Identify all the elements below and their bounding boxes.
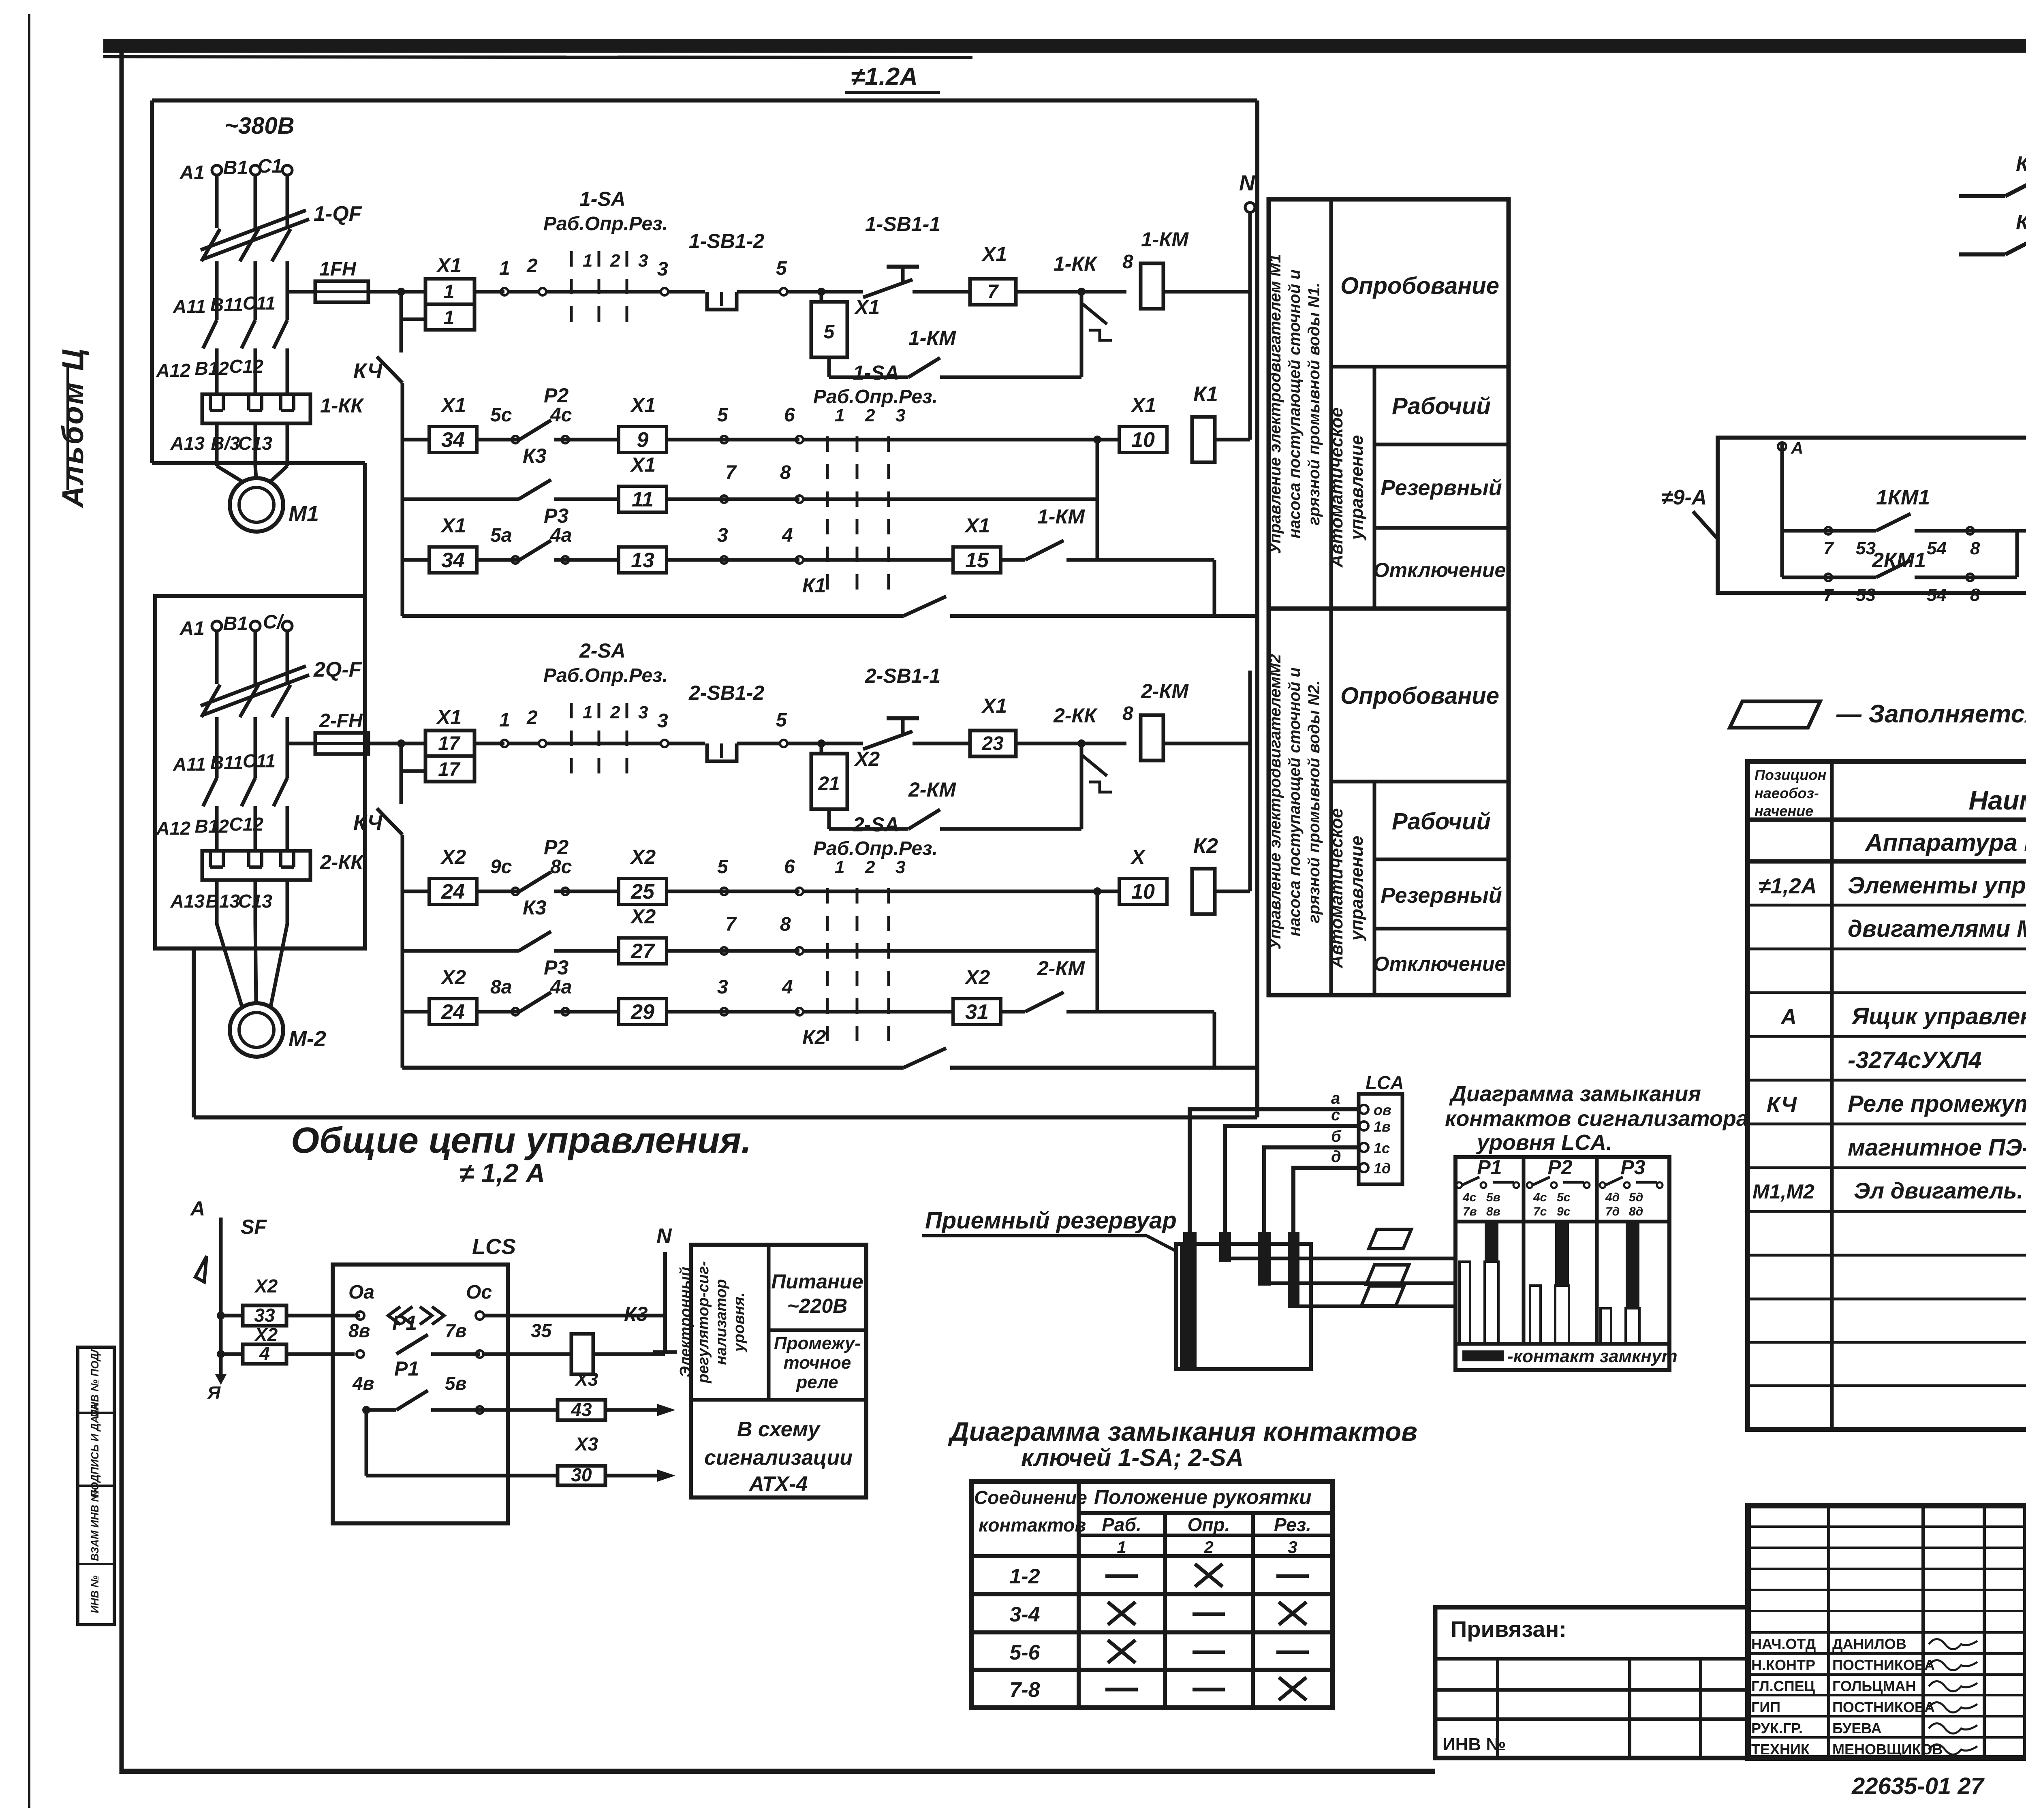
- svg-text:управление: управление: [1347, 435, 1367, 540]
- svg-text:Аппаратура по месту.: Аппаратура по месту.: [1864, 829, 2026, 856]
- svg-text:X1: X1: [440, 394, 466, 417]
- svg-text:С/: С/: [263, 611, 284, 633]
- svg-text:X2: X2: [630, 846, 656, 868]
- svg-text:д: д: [1331, 1148, 1341, 1166]
- svg-text:7-8: 7-8: [1009, 1678, 1040, 1702]
- svg-text:1: 1: [499, 258, 510, 279]
- svg-text:5: 5: [824, 321, 835, 343]
- svg-text:а: а: [1331, 1089, 1340, 1107]
- svg-text:А: А: [1791, 438, 1803, 457]
- svg-text:7: 7: [987, 281, 999, 303]
- svg-text:Х2: Х2: [254, 1324, 278, 1345]
- svg-text:2: 2: [610, 251, 620, 271]
- svg-text:грязной промывной воды N1.: грязной промывной воды N1.: [1305, 282, 1323, 525]
- svg-text:X2: X2: [854, 748, 880, 770]
- svg-text:ГЛ.СПЕЦ: ГЛ.СПЕЦ: [1751, 1678, 1815, 1694]
- svg-text:6: 6: [784, 856, 795, 878]
- svg-text:Эл двигатель. 4АХ80А2 1.5кВт: Эл двигатель. 4АХ80А2 1.5кВт: [1854, 1178, 2026, 1203]
- svg-text:ГОЛЬЦМАН: ГОЛЬЦМАН: [1832, 1678, 1916, 1694]
- svg-text:С12: С12: [229, 356, 264, 377]
- svg-text:5с: 5с: [1557, 1191, 1571, 1204]
- svg-text:А13: А13: [170, 891, 205, 912]
- svg-text:29: 29: [630, 1000, 654, 1024]
- svg-text:17: 17: [438, 733, 461, 754]
- svg-text:5а: 5а: [490, 525, 512, 546]
- svg-text:реле: реле: [796, 1372, 838, 1392]
- svg-text:9: 9: [637, 428, 649, 452]
- svg-text:К3: К3: [624, 1303, 648, 1325]
- svg-text:8д: 8д: [1629, 1205, 1643, 1218]
- svg-text:≠ 1,2 А: ≠ 1,2 А: [459, 1158, 545, 1188]
- svg-text:1-2: 1-2: [1009, 1565, 1040, 1588]
- svg-text:5: 5: [776, 709, 787, 731]
- svg-text:Управление электродвигателем М: Управление электродвигателем М1: [1266, 254, 1284, 554]
- svg-text:В13: В13: [206, 891, 240, 912]
- svg-text:43: 43: [571, 1399, 592, 1420]
- svg-text:3: 3: [638, 251, 648, 271]
- svg-text:грязной промывной воды N2.: грязной промывной воды N2.: [1305, 680, 1323, 923]
- svg-text:8: 8: [780, 462, 791, 483]
- svg-text:Наименование: Наименование: [1969, 785, 2026, 815]
- svg-text:X1: X1: [630, 453, 656, 476]
- svg-text:Приемный резервуар: Приемный резервуар: [925, 1207, 1177, 1234]
- svg-text:А12: А12: [156, 360, 191, 381]
- svg-text:4: 4: [782, 976, 793, 998]
- svg-text:27: 27: [630, 940, 655, 963]
- svg-text:8в: 8в: [1486, 1205, 1500, 1218]
- svg-text:1КМ1: 1КМ1: [1876, 486, 1930, 509]
- svg-text:1-SA: 1-SA: [853, 361, 899, 384]
- svg-text:1-КМ: 1-КМ: [1037, 505, 1085, 528]
- svg-text:Х3: Х3: [574, 1433, 598, 1455]
- svg-text:24: 24: [441, 1000, 465, 1024]
- svg-text:Р2: Р2: [1547, 1156, 1572, 1179]
- svg-text:уровня.: уровня.: [731, 1292, 748, 1352]
- svg-text:Р3: Р3: [544, 504, 568, 527]
- svg-text:2-SB1-1: 2-SB1-1: [865, 664, 940, 687]
- svg-text:31: 31: [965, 1000, 989, 1024]
- svg-text:X1: X1: [436, 254, 462, 277]
- svg-text:насоса поступающей сточной и: насоса поступающей сточной и: [1286, 667, 1304, 936]
- svg-text:Х2: Х2: [254, 1275, 278, 1297]
- svg-text:ДАНИЛОВ: ДАНИЛОВ: [1832, 1636, 1906, 1652]
- svg-text:1-КК: 1-КК: [1054, 252, 1098, 275]
- svg-text:точное: точное: [784, 1353, 851, 1373]
- svg-text:М1,М2: М1,М2: [1752, 1180, 1814, 1203]
- svg-text:К2: К2: [1193, 834, 1218, 858]
- svg-text:Отключение: Отключение: [1374, 953, 1506, 975]
- svg-text:начение: начение: [1755, 803, 1813, 819]
- svg-text:34: 34: [441, 428, 465, 452]
- svg-text:Электронный: Электронный: [677, 1267, 694, 1378]
- svg-text:30: 30: [571, 1464, 592, 1485]
- svg-text:4: 4: [259, 1343, 270, 1364]
- svg-text:Р1: Р1: [1477, 1156, 1502, 1179]
- svg-text:LCA: LCA: [1366, 1072, 1404, 1093]
- svg-text:АТХ-4: АТХ-4: [748, 1472, 808, 1496]
- svg-text:1-SA: 1-SA: [579, 188, 626, 210]
- svg-text:2КМ1: 2КМ1: [1872, 549, 1926, 572]
- svg-text:2: 2: [865, 857, 875, 877]
- svg-text:С12: С12: [229, 814, 264, 835]
- svg-text:7в: 7в: [1463, 1205, 1477, 1218]
- svg-text:11: 11: [632, 488, 654, 511]
- svg-text:2-КК: 2-КК: [1053, 704, 1098, 727]
- svg-text:1-КК: 1-КК: [320, 394, 364, 417]
- svg-text:X2: X2: [630, 905, 656, 928]
- svg-text:1-QF: 1-QF: [314, 202, 362, 226]
- svg-text:ПОДПИСЬ И ДАТА: ПОДПИСЬ И ДАТА: [89, 1403, 101, 1498]
- svg-text:5с: 5с: [490, 404, 512, 426]
- svg-text:Ос: Ос: [466, 1282, 492, 1303]
- svg-text:КЧ: КЧ: [2016, 211, 2026, 234]
- svg-text:8а: 8а: [490, 976, 512, 998]
- svg-text:Элементы управления электро-: Элементы управления электро-: [1848, 872, 2026, 899]
- svg-text:Промежу-: Промежу-: [774, 1333, 861, 1353]
- svg-text:Р2: Р2: [544, 384, 568, 407]
- svg-text:Раб.: Раб.: [1102, 1514, 1141, 1535]
- svg-text:8: 8: [780, 914, 791, 935]
- svg-text:5: 5: [776, 258, 787, 279]
- svg-text:ПОСТНИКОВА: ПОСТНИКОВА: [1832, 1657, 1935, 1673]
- svg-text:1FН: 1FН: [319, 258, 357, 280]
- svg-text:7в: 7в: [445, 1320, 466, 1341]
- svg-text:1: 1: [835, 857, 844, 877]
- svg-text:5в: 5в: [445, 1373, 466, 1394]
- svg-text:С13: С13: [238, 433, 273, 454]
- svg-text:В11: В11: [210, 752, 243, 773]
- svg-text:~380В: ~380В: [224, 113, 295, 139]
- svg-text:с: с: [1331, 1106, 1340, 1124]
- svg-text:7: 7: [1823, 538, 1834, 558]
- svg-text:23: 23: [981, 733, 1004, 754]
- svg-text:магнитное ПЭ-37: магнитное ПЭ-37: [1848, 1134, 2026, 1161]
- svg-text:сигнализации: сигнализации: [704, 1446, 853, 1470]
- svg-text:7д: 7д: [1605, 1205, 1620, 1218]
- svg-text:3: 3: [717, 525, 728, 546]
- svg-text:54: 54: [1927, 585, 1947, 605]
- svg-text:ов: ов: [1374, 1102, 1391, 1118]
- svg-text:1д: 1д: [1374, 1160, 1391, 1177]
- svg-text:С1: С1: [258, 156, 282, 177]
- svg-text:Управление электродвигателемМ2: Управление электродвигателемМ2: [1266, 654, 1284, 949]
- svg-text:1-КМ: 1-КМ: [1141, 228, 1189, 251]
- svg-text:Реле промежуточное электро-: Реле промежуточное электро-: [1848, 1091, 2026, 1117]
- svg-text:Раб.Опр.Рез.: Раб.Опр.Рез.: [543, 213, 668, 235]
- svg-text:В/3: В/3: [211, 433, 240, 454]
- svg-text:4: 4: [782, 525, 793, 546]
- svg-text:X1: X1: [1130, 394, 1156, 417]
- svg-text:Рабочий: Рабочий: [1392, 808, 1491, 835]
- svg-text:ВЗАМ ИНВ №: ВЗАМ ИНВ №: [89, 1490, 101, 1561]
- svg-text:1: 1: [444, 281, 455, 303]
- svg-text:1в: 1в: [1374, 1118, 1391, 1135]
- svg-text:Привязан:: Привязан:: [1451, 1616, 1567, 1642]
- svg-text:Р1: Р1: [394, 1357, 419, 1380]
- svg-text:5-6: 5-6: [1009, 1641, 1040, 1664]
- svg-text:9с: 9с: [1557, 1205, 1571, 1218]
- svg-text:X1: X1: [440, 514, 466, 537]
- svg-text:управление: управление: [1347, 836, 1367, 941]
- svg-text:X2: X2: [440, 846, 466, 868]
- svg-text:А: А: [190, 1197, 205, 1220]
- svg-text:4д: 4д: [1605, 1191, 1620, 1204]
- svg-text:В12: В12: [195, 816, 229, 837]
- svg-text:3: 3: [1288, 1538, 1297, 1557]
- svg-text:3: 3: [895, 857, 905, 877]
- svg-text:В1: В1: [223, 613, 248, 634]
- svg-text:б: б: [1331, 1128, 1342, 1145]
- svg-text:4с: 4с: [1533, 1191, 1547, 1204]
- svg-text:С11: С11: [243, 293, 276, 314]
- svg-text:1: 1: [1117, 1538, 1126, 1557]
- svg-text:X1: X1: [981, 694, 1007, 717]
- svg-text:ключей 1-SA; 2-SA: ключей 1-SA; 2-SA: [1021, 1444, 1244, 1471]
- svg-text:2-КМ: 2-КМ: [1141, 680, 1189, 703]
- svg-text:ТЕХНИК: ТЕХНИК: [1751, 1741, 1810, 1758]
- svg-text:Соединение: Соединение: [974, 1487, 1087, 1508]
- svg-text:1-КМ: 1-КМ: [908, 327, 956, 349]
- svg-text:4а: 4а: [550, 976, 572, 998]
- svg-text:БУЕВА: БУЕВА: [1832, 1720, 1882, 1737]
- svg-text:Оа: Оа: [348, 1282, 374, 1303]
- svg-text:Ящик управления ЯОН5901-: Ящик управления ЯОН5901-: [1851, 1003, 2026, 1030]
- svg-text:X1: X1: [630, 394, 656, 417]
- svg-text:6: 6: [784, 404, 795, 426]
- svg-text:В11: В11: [210, 294, 243, 315]
- svg-text:Опр.: Опр.: [1188, 1514, 1230, 1535]
- svg-text:А1: А1: [180, 618, 205, 639]
- svg-text:N: N: [1239, 171, 1255, 195]
- svg-text:Я: Я: [207, 1383, 221, 1403]
- svg-text:Раб.Опр.Рез.: Раб.Опр.Рез.: [813, 386, 938, 408]
- svg-text:МЕНОВЩИКОВ: МЕНОВЩИКОВ: [1832, 1741, 1943, 1758]
- svg-text:В1: В1: [223, 157, 248, 179]
- svg-text:2: 2: [1203, 1538, 1213, 1557]
- svg-text:1-SB1-1: 1-SB1-1: [865, 213, 940, 235]
- svg-text:1-SB1-2: 1-SB1-2: [689, 230, 764, 252]
- svg-text:Положение рукоятки: Положение рукоятки: [1094, 1486, 1312, 1508]
- svg-text:N: N: [656, 1224, 672, 1248]
- svg-text:2-КК: 2-КК: [320, 851, 364, 874]
- svg-text:35: 35: [531, 1320, 552, 1341]
- svg-text:Питание: Питание: [771, 1270, 863, 1293]
- svg-text:ИНВ №: ИНВ №: [89, 1575, 101, 1613]
- svg-text:Рабочий: Рабочий: [1392, 393, 1491, 419]
- svg-text:7: 7: [1823, 585, 1834, 605]
- svg-text:С13: С13: [238, 891, 273, 912]
- svg-text:К1: К1: [802, 574, 826, 597]
- svg-text:5д: 5д: [1629, 1191, 1643, 1204]
- svg-text:3: 3: [657, 258, 668, 280]
- svg-text:2: 2: [526, 255, 538, 277]
- svg-text:ПОСТНИКОВА: ПОСТНИКОВА: [1832, 1699, 1935, 1715]
- svg-text:К1: К1: [1193, 382, 1218, 406]
- svg-text:А: А: [1780, 1005, 1797, 1029]
- svg-text:8: 8: [1122, 703, 1133, 724]
- svg-text:8: 8: [1122, 251, 1133, 273]
- svg-text:2-SA: 2-SA: [579, 639, 626, 662]
- svg-text:А13: А13: [170, 433, 205, 454]
- svg-text:ИНВ №: ИНВ №: [1443, 1735, 1506, 1754]
- svg-text:X2: X2: [964, 966, 990, 989]
- svg-text:КЧ: КЧ: [353, 811, 383, 835]
- svg-text:22635-01 27: 22635-01 27: [1851, 1773, 1985, 1799]
- svg-text:-контакт замкнут: -контакт замкнут: [1507, 1346, 1678, 1366]
- svg-text:Раб.Опр.Рез.: Раб.Опр.Рез.: [543, 665, 668, 686]
- svg-text:двигателями М1, М2: двигателями М1, М2: [1848, 916, 2026, 942]
- svg-text:54: 54: [1927, 538, 1947, 558]
- svg-text:3-4: 3-4: [1009, 1603, 1040, 1626]
- svg-text:X1: X1: [436, 706, 462, 728]
- svg-text:9с: 9с: [490, 856, 512, 878]
- svg-text:2: 2: [865, 406, 875, 425]
- svg-text:1: 1: [835, 406, 844, 425]
- svg-text:8с: 8с: [550, 856, 572, 878]
- svg-text:2-SA: 2-SA: [853, 813, 899, 836]
- svg-text:К3: К3: [523, 896, 547, 919]
- svg-text:5в: 5в: [1486, 1191, 1500, 1204]
- svg-text:-3274сУХЛ4: -3274сУХЛ4: [1848, 1047, 1982, 1073]
- svg-text:1: 1: [583, 251, 592, 271]
- svg-text:В схему: В схему: [737, 1418, 821, 1441]
- svg-text:Автоматическое: Автоматическое: [1327, 808, 1346, 969]
- svg-text:насоса поступающей сточной и: насоса поступающей сточной и: [1286, 269, 1304, 538]
- svg-text:1: 1: [499, 709, 510, 731]
- svg-text:10: 10: [1131, 428, 1155, 452]
- svg-text:РУК.ГР.: РУК.ГР.: [1751, 1720, 1803, 1737]
- svg-text:X: X: [1130, 846, 1146, 868]
- svg-text:10: 10: [1131, 880, 1155, 904]
- svg-text:С11: С11: [243, 750, 276, 771]
- svg-text:2-FН: 2-FН: [319, 710, 363, 732]
- svg-text:Общие цепи управления.: Общие цепи управления.: [291, 1120, 751, 1161]
- svg-text:КЧ: КЧ: [2016, 152, 2026, 176]
- svg-text:Н.КОНТР: Н.КОНТР: [1751, 1657, 1815, 1673]
- svg-text:Р2: Р2: [544, 836, 568, 859]
- svg-text:В12: В12: [195, 358, 229, 379]
- svg-text:А1: А1: [180, 162, 205, 184]
- svg-text:ГИП: ГИП: [1751, 1699, 1780, 1715]
- svg-text:≠1.2А: ≠1.2А: [851, 63, 918, 91]
- svg-text:К2: К2: [802, 1026, 826, 1049]
- svg-text:3: 3: [895, 406, 905, 425]
- svg-text:2: 2: [526, 707, 538, 728]
- svg-text:Х3: Х3: [574, 1369, 598, 1390]
- svg-text:8: 8: [1970, 585, 1980, 605]
- svg-text:контактов сигнализатора: контактов сигнализатора: [1445, 1107, 1748, 1131]
- svg-text:15: 15: [965, 549, 989, 572]
- svg-text:КЧ: КЧ: [1767, 1092, 1797, 1117]
- svg-text:Диаграмма замыкания: Диаграмма замыкания: [1449, 1082, 1701, 1106]
- svg-text:2-SB1-2: 2-SB1-2: [688, 681, 764, 704]
- svg-text:— Заполняется при привязке.: — Заполняется при привязке.: [1836, 700, 2026, 728]
- svg-text:~220В: ~220В: [787, 1295, 848, 1317]
- svg-text:13: 13: [631, 549, 654, 572]
- svg-text:Р1: Р1: [392, 1312, 417, 1334]
- svg-text:34: 34: [441, 549, 465, 572]
- svg-text:7с: 7с: [1533, 1205, 1547, 1218]
- svg-text:3: 3: [638, 703, 648, 722]
- svg-text:уровня LCA.: уровня LCA.: [1476, 1130, 1612, 1155]
- svg-text:Резервный: Резервный: [1381, 883, 1502, 908]
- svg-text:5: 5: [717, 856, 729, 878]
- svg-text:2Q-F: 2Q-F: [313, 658, 362, 681]
- svg-text:7: 7: [725, 914, 737, 935]
- svg-text:1с: 1с: [1374, 1140, 1390, 1156]
- svg-text:7: 7: [725, 462, 737, 483]
- svg-text:5: 5: [717, 404, 729, 426]
- svg-text:Диаграмма замыкания контактов: Диаграмма замыкания контактов: [948, 1416, 1417, 1446]
- svg-text:8в: 8в: [348, 1320, 370, 1341]
- svg-text:наеобоз-: наеобоз-: [1755, 785, 1819, 801]
- svg-text:нализатор: нализатор: [713, 1279, 730, 1365]
- svg-text:LCS: LCS: [472, 1235, 516, 1259]
- svg-text:4с: 4с: [1462, 1191, 1477, 1204]
- svg-text:33: 33: [254, 1305, 275, 1326]
- svg-text:X1: X1: [964, 514, 990, 537]
- svg-text:Раб.Опр.Рез.: Раб.Опр.Рез.: [813, 838, 938, 859]
- svg-text:2-КМ: 2-КМ: [908, 778, 956, 801]
- svg-text:М1: М1: [289, 502, 319, 526]
- svg-text:Отключение: Отключение: [1374, 559, 1506, 581]
- svg-text:≠1,2А: ≠1,2А: [1759, 874, 1817, 898]
- svg-text:1: 1: [583, 703, 592, 722]
- svg-text:Опробование: Опробование: [1340, 683, 1499, 709]
- svg-text:контактов: контактов: [979, 1515, 1086, 1536]
- svg-text:1: 1: [444, 307, 455, 329]
- svg-text:Р3: Р3: [1620, 1156, 1645, 1179]
- svg-text:17: 17: [438, 759, 461, 780]
- svg-text:регулятор-сиг-: регулятор-сиг-: [695, 1261, 712, 1383]
- svg-text:Рез.: Рез.: [1274, 1514, 1311, 1535]
- svg-text:25: 25: [630, 880, 655, 904]
- svg-text:24: 24: [441, 880, 465, 904]
- svg-text:4а: 4а: [550, 525, 572, 546]
- svg-text:4в: 4в: [352, 1373, 374, 1394]
- svg-text:3: 3: [717, 976, 728, 998]
- svg-text:3: 3: [657, 710, 668, 732]
- svg-text:21: 21: [818, 773, 840, 795]
- svg-text:Альбом Ц: Альбом Ц: [56, 347, 90, 508]
- svg-text:КЧ: КЧ: [353, 359, 383, 383]
- svg-text:М-2: М-2: [289, 1027, 326, 1051]
- svg-text:К3: К3: [523, 444, 547, 467]
- svg-text:≠9-А: ≠9-А: [1661, 486, 1707, 509]
- svg-text:X1: X1: [854, 296, 880, 318]
- svg-text:2: 2: [610, 703, 620, 722]
- svg-text:SF: SF: [241, 1215, 267, 1238]
- svg-text:А11: А11: [173, 296, 206, 317]
- svg-text:Опробование: Опробование: [1340, 273, 1499, 299]
- svg-text:2-КМ: 2-КМ: [1037, 957, 1085, 980]
- svg-text:53: 53: [1856, 585, 1876, 605]
- svg-text:Позицион: Позицион: [1755, 767, 1826, 783]
- svg-text:X2: X2: [440, 966, 466, 989]
- svg-text:А12: А12: [156, 818, 191, 839]
- svg-text:Резервный: Резервный: [1381, 476, 1502, 500]
- svg-text:Автоматическое: Автоматическое: [1327, 408, 1346, 568]
- svg-text:X1: X1: [981, 243, 1007, 265]
- svg-text:8: 8: [1970, 538, 1980, 558]
- svg-text:А11: А11: [173, 754, 206, 775]
- svg-text:НАЧ.ОТД: НАЧ.ОТД: [1751, 1636, 1816, 1652]
- svg-text:4с: 4с: [550, 404, 572, 426]
- svg-text:Р3: Р3: [544, 956, 568, 979]
